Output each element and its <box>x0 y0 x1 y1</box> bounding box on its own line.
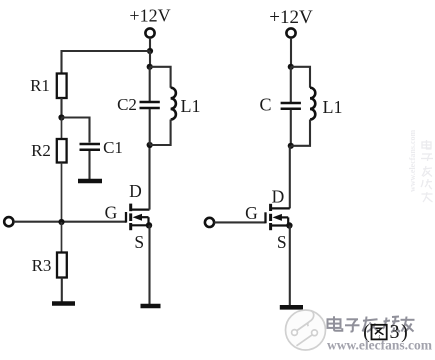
gate electrode <box>264 212 266 223</box>
wire terminal down (right) <box>290 38 292 67</box>
ground (Q1 source) <box>141 304 161 309</box>
drain bar <box>132 209 150 211</box>
wire input to gate (right) <box>214 221 265 223</box>
wire source down (left) <box>148 225 150 304</box>
node junction dot input/R3 <box>58 219 64 225</box>
wire node A to R2 <box>61 118 63 140</box>
svg-text:R3: R3 <box>32 256 52 275</box>
wire drain up (left) <box>148 145 150 210</box>
capacitor C2 <box>140 101 160 104</box>
svg-text:www.elecfans.com: www.elecfans.com <box>408 129 417 192</box>
resistor R3 <box>57 253 67 278</box>
transistor Q1 (left MOSFET) <box>126 204 152 231</box>
wire R3 to ground <box>61 278 63 302</box>
node A junction dot <box>58 114 64 120</box>
svg-text:G: G <box>105 203 118 223</box>
channel bars <box>269 204 272 211</box>
capacitor C (right) <box>281 102 301 105</box>
channel bars <box>129 204 132 212</box>
发 <box>363 317 367 332</box>
source bar <box>132 224 150 226</box>
wire R2 to input node <box>61 163 63 223</box>
ground (C1) <box>78 179 102 184</box>
wire C1 branch from node A <box>62 118 90 143</box>
wire drain up (right) <box>289 146 291 209</box>
svg-text:C: C <box>259 95 271 115</box>
wire L1 branch bottom (left) <box>150 120 171 146</box>
resistor R2 <box>57 139 67 163</box>
svg-text:+12V: +12V <box>129 6 170 26</box>
terminal input (right) <box>205 218 214 227</box>
capacitor C1 <box>80 143 101 146</box>
友 <box>401 319 415 321</box>
wire input to gate <box>14 221 126 223</box>
node junction dot top rail <box>147 48 153 54</box>
svg-text:D: D <box>129 181 142 201</box>
wire top rail <box>62 51 151 74</box>
wire C to tank bottom dot (right) <box>290 110 292 146</box>
terminal +12V (right) <box>286 28 295 37</box>
body arrow <box>133 214 142 221</box>
drain bar <box>271 207 289 209</box>
wire L1 branch top (right) <box>291 67 310 88</box>
transistor Q2 (right MOSFET) <box>266 204 293 230</box>
svg-text:C1: C1 <box>103 138 123 157</box>
wire tank top dot to C2 <box>149 67 151 101</box>
node junction dot tank top (right) <box>288 64 294 70</box>
svg-text:S: S <box>277 232 287 252</box>
wire node to R3 <box>61 222 63 253</box>
wire L1 branch bottom (right) <box>291 120 310 146</box>
wire R1 to node A <box>60 98 62 118</box>
wire tank top to C (right) <box>290 67 292 102</box>
inductor L1 (left) <box>171 88 176 120</box>
ground (R3) <box>52 301 75 306</box>
node source junction dot <box>286 222 292 228</box>
svg-text:G: G <box>245 203 258 223</box>
svg-text:C2: C2 <box>117 95 137 114</box>
body arrow <box>273 214 282 221</box>
svg-text:+12V: +12V <box>269 7 313 28</box>
terminal +12V (left) <box>145 28 154 37</box>
svg-text:S: S <box>134 232 144 252</box>
node junction dot tank bottom (left) <box>147 142 153 148</box>
wire L1 branch top (left) <box>150 67 171 88</box>
resistor R1 <box>57 74 67 99</box>
子 <box>347 318 359 320</box>
svg-text:R2: R2 <box>31 141 51 160</box>
gate electrode <box>125 212 127 223</box>
svg-text:L1: L1 <box>181 96 201 116</box>
node junction dot tank bottom (right) <box>288 143 294 149</box>
ground (Q2 source) <box>280 305 303 310</box>
wire C1 to ground <box>88 151 90 180</box>
wire rail dot to tank top dot <box>149 51 151 67</box>
source bar <box>271 224 289 226</box>
node junction dot tank top (left) <box>147 64 153 70</box>
wire terminal to rail (left) <box>149 38 151 51</box>
svg-text:R1: R1 <box>30 76 50 95</box>
watermark vertical faint (right edge) <box>408 129 433 202</box>
terminal input (left) <box>4 217 13 226</box>
inductor L1 (right) <box>310 88 315 120</box>
node source junction dot <box>146 222 152 228</box>
烧 <box>383 318 387 330</box>
wire source down (right) <box>289 226 291 306</box>
label (图3) <box>363 321 408 343</box>
watermark logo elecfans <box>286 310 326 350</box>
svg-text:D: D <box>272 187 285 207</box>
电 <box>328 319 341 328</box>
wire C2 to tank bottom dot <box>149 109 151 145</box>
watermark text 电子发烧友 (drawn glyphs, gray) <box>328 316 415 332</box>
svg-text:www.elecfans.com: www.elecfans.com <box>327 338 433 353</box>
svg-text:L1: L1 <box>323 97 343 117</box>
